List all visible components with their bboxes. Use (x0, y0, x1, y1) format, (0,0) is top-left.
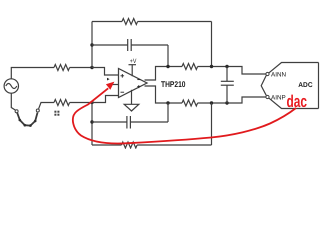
jumper terminal right (36, 109, 39, 112)
node B junction (90, 101, 93, 104)
jumper cable arc (17, 113, 37, 126)
wire R5 to ADC AINP (198, 97, 266, 103)
wire lower feedback right vertical (211, 103, 213, 145)
resistor R2 (lower input) (54, 100, 70, 106)
input marker (107, 78, 110, 81)
wire amp OUT- to upper rail (145, 67, 183, 81)
svg-text:ADC: ADC (298, 82, 312, 89)
op-amp U1 THP210 (119, 69, 148, 98)
svg-text:THP210: THP210 (161, 79, 186, 89)
AC source V1 (4, 79, 18, 93)
jumper terminal left (15, 110, 18, 113)
node I junction (225, 101, 228, 104)
svg-text:AINN: AINN (271, 71, 286, 78)
ground (124, 90, 139, 111)
ADC U2 body (261, 63, 318, 109)
resistor R1 (upper input) (54, 65, 70, 71)
resistor R4 (upper output) (182, 64, 198, 70)
wire R4 to ADC AINN (198, 67, 266, 75)
node E junction (210, 65, 213, 68)
resistor R3 (upper feedback) (92, 19, 212, 25)
wire R1 to node A (70, 67, 92, 69)
node A junction (90, 66, 93, 69)
node J junction (90, 120, 93, 123)
svg-text:+V: +V (130, 58, 137, 65)
wire amp OUT+ to lower rail (145, 86, 183, 103)
wire node B to amp IN- (92, 96, 119, 103)
capacitor C3 (lower feedback) (92, 116, 168, 129)
node F junction (225, 65, 228, 68)
dac-to-VOCM annotation arrow (73, 88, 296, 143)
svg-text:AINP: AINP (271, 94, 286, 101)
wire R2 to node B (70, 102, 92, 104)
capacitor C1 (upper feedback) (92, 39, 168, 51)
wire feedback left vertical (91, 22, 93, 68)
wire lower feedback left vertical (91, 103, 93, 146)
wire C3 to lower output rail (167, 103, 169, 122)
annotation arrowhead (106, 82, 115, 90)
node C junction (90, 43, 93, 46)
resistor R6 (lower feedback) (92, 142, 212, 148)
capacitor C2 (filter) (221, 67, 234, 104)
jumper joint dots (19, 119, 37, 127)
wire source bottom to jumper (11, 93, 15, 110)
wire jumper to lower rail (39, 103, 54, 109)
svg-text:dac: dac (287, 92, 308, 111)
node G junction (166, 101, 169, 104)
anchor icon (54, 111, 59, 116)
wire C1 to upper output rail (167, 45, 169, 67)
wire feedback right vertical (211, 22, 213, 67)
node H junction (210, 101, 213, 104)
wire node A to amp IN+ (92, 68, 119, 76)
+V supply (129, 58, 138, 76)
resistor R5 (lower output) (182, 100, 198, 106)
ADC pin AINN circle (266, 72, 269, 75)
ADC pin AINP circle (266, 95, 269, 98)
wire source top to upper rail (11, 68, 54, 79)
node D junction (166, 65, 169, 68)
VOCM stub (111, 84, 119, 86)
